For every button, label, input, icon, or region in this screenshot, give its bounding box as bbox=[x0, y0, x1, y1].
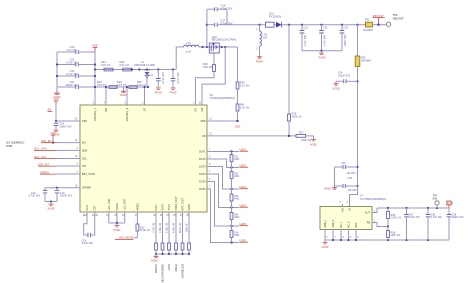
svg-text:24.3 1%: 24.3 1% bbox=[117, 83, 127, 87]
wire U7 ground pins bbox=[325, 230, 359, 241]
wire LED_GND/PGND pins bbox=[109, 212, 125, 224]
note I2C address bbox=[6, 141, 25, 148]
wire gate to GD pin bbox=[196, 78, 215, 105]
capacitor C37 (LDO out) bbox=[404, 208, 420, 240]
svg-text:2: 2 bbox=[256, 48, 258, 51]
capacitor C26 (snubber) bbox=[207, 3, 233, 11]
svg-text:0x2B: 0x2B bbox=[6, 144, 12, 148]
wire boost output rail bbox=[282, 24, 366, 26]
svg-text:VDD: VDD bbox=[235, 124, 241, 128]
ground AGND (LDO input caps) bbox=[324, 186, 337, 191]
wire TSD pin bbox=[55, 105, 80, 123]
capacitor C18 (input decoupling) bbox=[170, 68, 180, 94]
capacitor C38 (LDO out) bbox=[426, 208, 443, 240]
resistor R15 (LED4-LED5) bbox=[230, 208, 240, 227]
svg-text:88.7k 1%: 88.7k 1% bbox=[179, 222, 182, 233]
capacitor C27 (snubber) bbox=[206, 18, 233, 26]
svg-text:SW: SW bbox=[201, 107, 204, 112]
svg-text:3: 3 bbox=[142, 102, 144, 105]
resistor R36 (FB top) bbox=[387, 208, 402, 227]
svg-text:BST_FSET: BST_FSET bbox=[182, 197, 185, 210]
svg-text:100nF 50V: 100nF 50V bbox=[338, 75, 351, 78]
net label LED1 bbox=[240, 147, 249, 151]
svg-text:STBEN: STBEN bbox=[40, 170, 49, 174]
svg-text:PGND: PGND bbox=[155, 92, 162, 95]
wire resistor bank gnd bus bbox=[155, 253, 190, 255]
U6 bottom pin numbers bbox=[84, 214, 189, 217]
svg-text:AGND: AGND bbox=[151, 259, 158, 262]
svg-text:15: 15 bbox=[75, 184, 78, 187]
svg-text:3: 3 bbox=[374, 219, 376, 222]
svg-text:0402: 0402 bbox=[234, 235, 240, 237]
wire LDO ground bus bbox=[325, 239, 449, 241]
svg-text:C31: C31 bbox=[304, 27, 309, 30]
capacitor C16 bbox=[54, 121, 72, 130]
svg-text:VBOOST: VBOOST bbox=[373, 14, 385, 18]
svg-text:R15: R15 bbox=[234, 214, 239, 216]
IC U6 LED driver bbox=[80, 93, 235, 212]
svg-text:C33: C33 bbox=[344, 27, 349, 30]
resistor R41 (VDD chain) bbox=[236, 89, 250, 121]
svg-text:OUT3: OUT3 bbox=[199, 166, 206, 169]
capacitor C33 (output) bbox=[340, 25, 349, 51]
power VDD (top of input cap ladder) bbox=[92, 43, 98, 52]
wire OUT4 bbox=[207, 174, 239, 209]
svg-text:TSET: TSET bbox=[168, 204, 171, 211]
svg-text:9: 9 bbox=[357, 236, 359, 239]
svg-text:LED2: LED2 bbox=[240, 163, 247, 167]
svg-text:2.05k 1%: 2.05k 1% bbox=[166, 222, 169, 233]
net label I2CL_SCL / wire SCL bbox=[34, 155, 80, 159]
wire snubber right rail bbox=[226, 9, 228, 25]
svg-text:AGND: AGND bbox=[324, 188, 331, 191]
svg-text:1/2W: 1/2W bbox=[167, 264, 171, 271]
svg-text:GND_1: GND_1 bbox=[325, 219, 327, 227]
wire snubber left rail bbox=[206, 9, 208, 47]
svg-text:NC_1: NC_1 bbox=[341, 221, 343, 228]
svg-text:100nF 16V: 100nF 16V bbox=[452, 216, 465, 219]
svg-text:7: 7 bbox=[334, 236, 336, 239]
svg-text:OUT5: OUT5 bbox=[199, 181, 206, 184]
svg-text:100nF 16V: 100nF 16V bbox=[60, 195, 73, 198]
net label LED2 bbox=[240, 163, 249, 167]
svg-text:MODE: MODE bbox=[136, 203, 139, 211]
net label LED6 bbox=[240, 238, 249, 242]
svg-text:SM-0684: SM-0684 bbox=[361, 60, 371, 63]
svg-text:6.34k 1%: 6.34k 1% bbox=[173, 222, 176, 233]
svg-text:140k 1%: 140k 1% bbox=[391, 234, 402, 237]
wire left rail of cap ladder bbox=[56, 52, 58, 91]
resistor R38 (FB bottom) bbox=[387, 227, 401, 241]
capacitor C22 bbox=[56, 69, 96, 78]
ground PGND (under IC) bbox=[113, 223, 120, 232]
svg-text:1uF 25V: 1uF 25V bbox=[347, 172, 356, 175]
U6 right pin numbers bbox=[209, 118, 212, 189]
svg-text:4.7uF 50V: 4.7uF 50V bbox=[304, 35, 307, 46]
U7 top pin names/numbers bbox=[340, 201, 352, 212]
U7 bottom pin names bbox=[325, 219, 358, 227]
svg-text:I2CL_SCL: I2CL_SCL bbox=[34, 155, 47, 159]
svg-text:9: 9 bbox=[76, 163, 78, 166]
svg-text:VSENSE_P: VSENSE_P bbox=[94, 107, 97, 121]
svg-text:R18: R18 bbox=[234, 232, 239, 234]
svg-text:5: 5 bbox=[125, 102, 127, 105]
svg-text:14: 14 bbox=[75, 118, 78, 121]
capacitor C15 bbox=[55, 188, 73, 202]
svg-text:C17: C17 bbox=[149, 74, 154, 77]
svg-text:LED_GND: LED_GND bbox=[124, 198, 127, 210]
svg-text:1uH: 1uH bbox=[186, 49, 191, 53]
svg-text:AGND: AGND bbox=[333, 87, 340, 90]
capacitor C21 bbox=[57, 80, 96, 89]
svg-text:0402: 0402 bbox=[234, 199, 240, 201]
svg-text:LED_INT: LED_INT bbox=[38, 162, 49, 166]
svg-text:EN: EN bbox=[342, 208, 344, 212]
net label SD bbox=[48, 108, 53, 112]
ground AGND (FB divider) bbox=[310, 136, 317, 147]
svg-text:R17: R17 bbox=[299, 130, 304, 134]
wire OUT1 bbox=[207, 150, 239, 152]
svg-text:OUT6: OUT6 bbox=[199, 188, 206, 191]
svg-text:12: 12 bbox=[209, 133, 212, 136]
capacitor C23 bbox=[56, 58, 96, 67]
U6 bottom pin names bbox=[86, 196, 191, 210]
svg-text:TSD: TSD bbox=[82, 120, 87, 123]
svg-text:C36: C36 bbox=[348, 177, 353, 180]
svg-text:TP6: TP6 bbox=[393, 13, 398, 17]
svg-text:INT: INT bbox=[82, 165, 87, 168]
svg-text:LED4: LED4 bbox=[240, 203, 247, 207]
svg-text:2: 2 bbox=[326, 236, 328, 239]
svg-text:1: 1 bbox=[256, 28, 258, 31]
svg-text:8: 8 bbox=[76, 147, 78, 150]
svg-text:OUT2: OUT2 bbox=[199, 158, 206, 161]
svg-text:SRR7028-T1-6R8: SRR7028-T1-6R8 bbox=[134, 63, 155, 67]
wire OUT3 bbox=[207, 167, 239, 191]
resistor R45 (inline lower bus) bbox=[117, 80, 137, 88]
svg-text:1: 1 bbox=[374, 209, 376, 212]
U6 right pin names bbox=[199, 120, 206, 191]
svg-text:4.7uF 16V: 4.7uF 16V bbox=[431, 216, 443, 219]
wire output cap ground bus bbox=[302, 50, 342, 52]
svg-text:6: 6 bbox=[93, 102, 95, 105]
resistor R14 (LED3-LED4) bbox=[230, 189, 240, 208]
svg-text:SDA: SDA bbox=[82, 149, 87, 152]
resistor R17 (boost FB bottom, inline) bbox=[296, 130, 314, 142]
svg-text:200mA: 200mA bbox=[154, 264, 158, 273]
svg-text:VDD: VDD bbox=[200, 120, 205, 123]
resistor R16 (boost FB top) bbox=[288, 25, 303, 136]
svg-text:CPUMP: CPUMP bbox=[82, 187, 91, 190]
resistor R21 (VSET) bbox=[159, 212, 164, 254]
svg-text:VIN: VIN bbox=[105, 108, 108, 112]
ground PGND (below lower bus) bbox=[120, 87, 127, 97]
ground AGND (C34) bbox=[333, 81, 340, 90]
svg-text:BST_SYNC: BST_SYNC bbox=[82, 173, 95, 176]
svg-text:TLV75801QWDRBRQ1: TLV75801QWDRBRQ1 bbox=[360, 198, 387, 201]
svg-text:9.31 1%: 9.31 1% bbox=[240, 83, 250, 87]
svg-text:2: 2 bbox=[209, 186, 211, 189]
svg-text:240k 1%: 240k 1% bbox=[301, 138, 312, 142]
svg-text:PGND: PGND bbox=[120, 94, 127, 97]
svg-text:GND_2: GND_2 bbox=[333, 219, 335, 227]
svg-text:AGND: AGND bbox=[48, 208, 55, 211]
net label LED5 bbox=[240, 222, 249, 226]
net flag 5V5 bbox=[447, 201, 453, 208]
svg-text:1uH: 1uH bbox=[263, 35, 268, 39]
svg-text:R31: R31 bbox=[365, 19, 370, 22]
svg-text:I2CL_SDA: I2CL_SDA bbox=[34, 147, 47, 151]
resistor R44 (inline lower bus) bbox=[97, 80, 117, 88]
svg-text:1uF 16V: 1uF 16V bbox=[67, 48, 77, 52]
capacitor C19 (flying cap C1N/C1P) bbox=[82, 212, 99, 245]
ground AGND (cap ladder) bbox=[54, 91, 61, 99]
resistor R29 (gate) bbox=[203, 53, 215, 78]
svg-text:OUT: OUT bbox=[365, 212, 371, 215]
svg-text:PGND: PGND bbox=[170, 92, 177, 95]
svg-text:LED_MODE: LED_MODE bbox=[119, 236, 134, 240]
svg-text:PWM: PWM bbox=[188, 204, 191, 210]
ground AGND (resistor bank) bbox=[151, 254, 158, 262]
svg-text:C1N: C1N bbox=[86, 205, 89, 210]
svg-text:R14: R14 bbox=[234, 196, 239, 198]
test point TP7 bbox=[433, 193, 440, 208]
svg-text:VSENSE_N: VSENSE_N bbox=[126, 108, 129, 122]
resistor R33 (MODE) bbox=[136, 212, 151, 238]
wire right rail of cap ladder / VDD rail bbox=[94, 52, 96, 105]
resistor R13 (LED2-LED3) bbox=[230, 168, 240, 190]
svg-text:240k 1%: 240k 1% bbox=[292, 114, 303, 118]
resistor R12 (LED1-LED2) bbox=[230, 152, 240, 168]
wire LDO input cap rail bbox=[334, 167, 336, 186]
transistor Q10 MOSFET bbox=[209, 35, 237, 53]
resistor R35 (DNP yellow, to LDO input) bbox=[355, 25, 371, 195]
svg-text:20: 20 bbox=[95, 214, 98, 217]
svg-text:0402: 0402 bbox=[234, 159, 240, 161]
svg-text:0402: 0402 bbox=[234, 176, 240, 178]
svg-text:DISABLED: DISABLED bbox=[181, 264, 185, 278]
capacitor C32 (output) bbox=[319, 25, 328, 51]
inductor L1B (to PGND) bbox=[256, 24, 267, 57]
capacitor C39 (LDO out) bbox=[447, 208, 464, 240]
wire LDO OUT pin bbox=[372, 208, 377, 213]
svg-text:PGND: PGND bbox=[113, 229, 120, 232]
net label LED4 bbox=[240, 203, 249, 207]
svg-text:8: 8 bbox=[350, 236, 352, 239]
capacitor C35 (LDO input) bbox=[335, 162, 359, 175]
wire switch node bbox=[199, 46, 238, 48]
svg-text:4: 4 bbox=[209, 171, 211, 174]
svg-text:C32: C32 bbox=[323, 27, 328, 30]
resistor R24 (BST_FSET) bbox=[179, 212, 184, 254]
capacitor C36 (LDO input) bbox=[335, 177, 359, 192]
svg-text:5V5: 5V5 bbox=[433, 197, 438, 201]
net label LED_EN / wire EN bbox=[41, 139, 80, 143]
svg-text:LED1: LED1 bbox=[240, 147, 247, 151]
inductor L1A bbox=[184, 41, 199, 53]
svg-text:5: 5 bbox=[342, 236, 344, 239]
svg-text:C35: C35 bbox=[341, 162, 346, 165]
svg-text:6: 6 bbox=[340, 201, 342, 204]
svg-text:PGND: PGND bbox=[319, 57, 326, 60]
wire cap gnd bus / ground AGND bbox=[45, 200, 57, 210]
U6 top pin names bbox=[94, 107, 204, 121]
resistor R22 (TSET) bbox=[166, 212, 171, 254]
svg-text:4.7uF 50V: 4.7uF 50V bbox=[324, 35, 327, 46]
svg-text:BSC0902LSACTMA1: BSC0902LSACTMA1 bbox=[212, 38, 237, 42]
svg-text:0.01 1%: 0.01 1% bbox=[101, 63, 111, 67]
ground PGND (under L1B) bbox=[256, 57, 263, 64]
svg-text:IN: IN bbox=[349, 208, 351, 211]
svg-text:16: 16 bbox=[198, 102, 201, 105]
svg-text:GD: GD bbox=[195, 108, 198, 112]
svg-text:R13: R13 bbox=[234, 173, 239, 175]
svg-text:PWM_FSET: PWM_FSET bbox=[175, 196, 178, 210]
capacitor C14 bbox=[29, 188, 48, 202]
svg-text:2MHz: 2MHz bbox=[174, 263, 178, 271]
svg-text:2: 2 bbox=[76, 171, 78, 174]
power VDD (SD pull-up) bbox=[53, 98, 58, 104]
resistor R43 (shunt, inline upper bus) bbox=[120, 60, 132, 71]
resistor R31 (series, DNP yellow) bbox=[363, 19, 386, 33]
net label I2CL_SDA / wire SDA bbox=[34, 147, 80, 151]
svg-text:4.7uF 16V: 4.7uF 16V bbox=[29, 195, 41, 198]
svg-text:L1A: L1A bbox=[186, 41, 191, 45]
svg-text:ISET: ISET bbox=[155, 204, 158, 210]
svg-text:11: 11 bbox=[75, 139, 78, 142]
svg-text:OUT4: OUT4 bbox=[199, 173, 206, 176]
svg-text:FB: FB bbox=[367, 222, 371, 225]
wire LDO output rail bbox=[377, 207, 449, 209]
svg-text:NC_2: NC_2 bbox=[349, 221, 351, 228]
svg-text:100nF 50V: 100nF 50V bbox=[344, 34, 347, 46]
capacitor C17 (input decoupling) bbox=[149, 68, 166, 94]
ground AGND (C16) bbox=[53, 130, 60, 137]
svg-text:VBOOST: VBOOST bbox=[393, 16, 405, 20]
svg-text:TPS61194QPWPRQ1: TPS61194QPWPRQ1 bbox=[210, 96, 236, 100]
svg-text:AGND: AGND bbox=[310, 143, 317, 146]
svg-text:PGND: PGND bbox=[116, 203, 119, 210]
ground PGND (output caps) bbox=[319, 51, 326, 60]
wire upper input bus bbox=[95, 69, 176, 71]
svg-text:1.87k 1%: 1.87k 1% bbox=[391, 217, 402, 220]
capacitor C34 bbox=[336, 72, 359, 84]
svg-text:VDD: VDD bbox=[92, 43, 98, 47]
svg-text:LED6: LED6 bbox=[240, 238, 247, 242]
svg-text:13: 13 bbox=[209, 118, 212, 121]
svg-text:LED3: LED3 bbox=[240, 185, 247, 189]
svg-text:6: 6 bbox=[209, 156, 211, 159]
wire bus to L1A bbox=[176, 47, 183, 70]
svg-text:1.0uF 16V: 1.0uF 16V bbox=[82, 242, 94, 245]
svg-text:100nF 16V: 100nF 16V bbox=[66, 83, 79, 87]
resistor R25 (PWM) bbox=[186, 212, 191, 254]
net flag VBOOST bbox=[373, 14, 385, 24]
wire FB pin to divider bbox=[207, 135, 296, 137]
capacitor C31 (output) bbox=[300, 25, 309, 51]
pin wire VSENSE_N bbox=[126, 87, 128, 105]
svg-text:10R 1%: 10R 1% bbox=[203, 65, 213, 69]
svg-text:1: 1 bbox=[193, 102, 195, 105]
svg-text:0402: 0402 bbox=[234, 217, 240, 219]
svg-text:VSET: VSET bbox=[162, 203, 165, 210]
svg-text:C1P: C1P bbox=[94, 205, 97, 210]
U6 left pin names bbox=[82, 120, 95, 190]
svg-text:100k 1%: 100k 1% bbox=[186, 222, 189, 232]
net label LED_MODE bbox=[115, 236, 137, 240]
wire OUT6 bbox=[207, 189, 239, 244]
svg-text:4: 4 bbox=[104, 102, 106, 105]
svg-text:SM-0804: SM-0804 bbox=[363, 29, 373, 32]
svg-text:1.50k 1%: 1.50k 1% bbox=[159, 222, 162, 233]
resistor R46 label bbox=[137, 80, 146, 87]
svg-text:10: 10 bbox=[75, 155, 78, 158]
wire OUT5 bbox=[207, 182, 239, 228]
svg-text:10uF 25V: 10uF 25V bbox=[409, 216, 420, 219]
svg-text:4.7uF 16V: 4.7uF 16V bbox=[66, 72, 78, 76]
svg-text:0.01 1%: 0.01 1% bbox=[120, 63, 130, 67]
svg-text:3: 3 bbox=[209, 178, 211, 181]
svg-text:47.5k 1%: 47.5k 1% bbox=[140, 229, 151, 232]
svg-text:PV12045V: PV12045V bbox=[269, 14, 282, 18]
wire LDO FB pin bbox=[372, 219, 389, 227]
ground AGND (LDO) bbox=[322, 240, 329, 249]
resistor R18 (LED5-LED6) bbox=[230, 226, 240, 243]
svg-text:4.7uF 16V: 4.7uF 16V bbox=[177, 72, 180, 84]
svg-text:DNC: DNC bbox=[356, 222, 358, 227]
svg-text:NO GRADING: NO GRADING bbox=[161, 263, 165, 282]
config notes (rotated) bbox=[154, 263, 185, 282]
svg-text:4.7uF 16V: 4.7uF 16V bbox=[162, 72, 165, 84]
wire lower input bus bbox=[95, 86, 148, 88]
pin wire VSENSE_P bbox=[105, 87, 107, 105]
U7 right pin names bbox=[365, 212, 371, 225]
IC U7 LDO bbox=[320, 195, 387, 230]
svg-text:1uF 25V: 1uF 25V bbox=[348, 189, 357, 192]
diode D10 bbox=[266, 11, 282, 27]
capacitor C20 bbox=[57, 45, 95, 54]
net label LED_INT / wire INT bbox=[38, 162, 80, 166]
svg-text:100nF 16V: 100nF 16V bbox=[60, 125, 73, 128]
diode D11 (hanging below bus) bbox=[144, 68, 150, 87]
svg-text:SCL: SCL bbox=[82, 158, 87, 161]
resistor R40 (VDD chain) bbox=[236, 47, 250, 89]
wire SW to SW pin bbox=[202, 47, 225, 105]
inductor L4 SRR7028 (inline upper bus) bbox=[131, 60, 155, 71]
power VDD (LED_EN pull-up) bbox=[50, 132, 55, 144]
svg-text:R12: R12 bbox=[234, 156, 239, 158]
wire boost diode rail bbox=[227, 24, 266, 26]
resistor R20 (ISET) bbox=[153, 212, 158, 254]
svg-text:LED5: LED5 bbox=[240, 222, 247, 226]
test point TP6 bbox=[386, 13, 404, 27]
svg-text:FB: FB bbox=[202, 135, 206, 138]
resistor R23 (PWM_FSET) bbox=[173, 212, 178, 254]
wire OUT2 bbox=[207, 159, 239, 169]
wire VDD pin bbox=[207, 120, 238, 122]
svg-text:4: 4 bbox=[346, 201, 348, 204]
pin wire SD bbox=[144, 87, 146, 105]
svg-text:5: 5 bbox=[209, 163, 211, 166]
svg-text:PGND: PGND bbox=[256, 60, 263, 63]
svg-text:LED_GND: LED_GND bbox=[108, 198, 111, 210]
svg-text:4.7uF 16V: 4.7uF 16V bbox=[66, 60, 78, 64]
svg-text:OUT1: OUT1 bbox=[199, 151, 206, 154]
svg-text:AGND: AGND bbox=[322, 246, 329, 249]
svg-text:EN: EN bbox=[82, 142, 86, 145]
resistor R42 (shunt, inline upper bus) bbox=[101, 60, 113, 71]
svg-text:17.4k 1%: 17.4k 1% bbox=[153, 222, 156, 233]
